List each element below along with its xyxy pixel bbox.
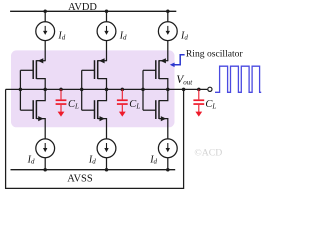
svg-text:Id: Id <box>27 154 35 165</box>
ring oscillator highlight region <box>11 50 175 127</box>
svg-text:©ACD: ©ACD <box>194 148 222 159</box>
transistor NMOS stage 1 <box>20 89 45 138</box>
svg-text:Id: Id <box>149 154 157 165</box>
node feedback tap <box>182 88 186 92</box>
wire gate input vertical stage 3 <box>142 70 144 110</box>
svg-text:Id: Id <box>57 30 65 41</box>
node input junction stage 3 <box>141 88 145 92</box>
wire current source to AVSS stage 3 <box>167 158 169 170</box>
current source Id (bottom, stage 1) <box>36 139 55 158</box>
node input junction stage 2 <box>80 88 84 92</box>
svg-text:Ring oscillator: Ring oscillator <box>186 48 244 59</box>
wire AVDD stem stage 3 <box>167 11 169 21</box>
wire gate input vertical stage 1 <box>19 70 21 110</box>
node AVSS tap stage 3 <box>166 168 170 172</box>
wire current source to AVSS stage 1 <box>44 158 46 170</box>
node output junction stage 2 <box>105 88 109 92</box>
AVSS rail <box>11 169 176 171</box>
svg-text:Id: Id <box>180 30 188 41</box>
signal row wire <box>6 88 208 90</box>
node output junction stage 1 <box>43 88 47 92</box>
node AVDD tap stage 2 <box>105 10 109 14</box>
wire AVDD stem stage 2 <box>106 11 108 21</box>
node AVSS tap stage 2 <box>105 168 109 172</box>
wire current source to PMOS source stage 2 <box>106 41 108 62</box>
capacitor CL (stage 1) <box>56 89 67 116</box>
node capacitor tap 3 <box>197 88 201 92</box>
node output junction stage 3 <box>166 88 170 92</box>
transistor NMOS stage 3 <box>143 89 168 138</box>
wire current source to PMOS source stage 1 <box>44 41 46 62</box>
transistor PMOS stage 2 <box>82 58 107 89</box>
node AVDD tap stage 3 <box>166 10 170 14</box>
svg-text:CL: CL <box>205 99 216 111</box>
current source Id (top, stage 3) <box>158 22 177 41</box>
svg-text:Id: Id <box>119 30 127 41</box>
wire AVDD stem stage 1 <box>44 11 46 21</box>
transistor PMOS stage 1 <box>20 58 45 89</box>
transistor NMOS stage 2 <box>82 89 107 138</box>
node capacitor tap 2 <box>121 88 125 92</box>
svg-text:AVSS: AVSS <box>67 173 93 184</box>
current source Id (bottom, stage 3) <box>158 139 177 158</box>
node capacitor tap 1 <box>59 88 63 92</box>
node input junction stage 1 <box>19 88 23 92</box>
current source Id (top, stage 1) <box>36 22 55 41</box>
output terminal <box>208 87 212 91</box>
capacitor CL (stage 2) <box>117 89 128 116</box>
current source Id (top, stage 2) <box>97 22 116 41</box>
feedback wire (output back to stage 1 input) <box>6 89 184 188</box>
svg-text:Vout: Vout <box>176 74 193 86</box>
capacitor CL (stage 3) <box>193 89 204 116</box>
node AVSS tap stage 1 <box>43 168 47 172</box>
wire gate input vertical stage 2 <box>81 70 83 110</box>
wire current source to PMOS source stage 3 <box>167 41 169 62</box>
node AVDD tap stage 1 <box>43 10 47 14</box>
output waveform (square wave) <box>215 66 261 92</box>
svg-text:AVDD: AVDD <box>68 2 97 13</box>
pointer arrow to ring oscillator region <box>170 55 185 67</box>
svg-text:Id: Id <box>88 154 96 165</box>
wire current source to AVSS stage 2 <box>106 158 108 170</box>
current source Id (bottom, stage 2) <box>97 139 116 158</box>
AVDD rail <box>10 10 176 12</box>
transistor PMOS stage 3 <box>143 58 168 89</box>
